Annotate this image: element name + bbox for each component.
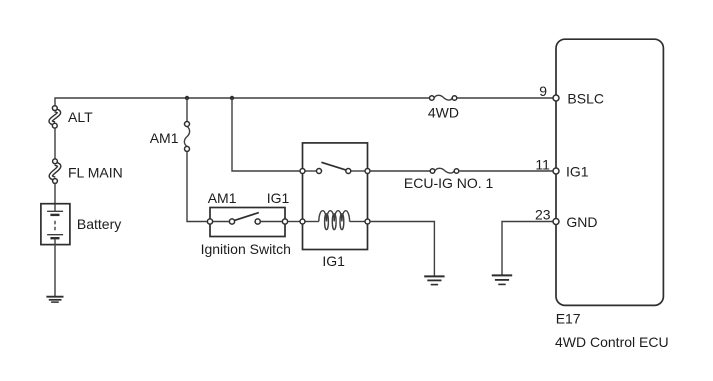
svg-text:9: 9 [539, 83, 547, 99]
pin 11 [553, 168, 559, 174]
wire: FL MAIN to battery [54, 183, 56, 211]
wire: battery B+ bus (left riser and top horizontal) [55, 98, 430, 106]
fusible link ALT [51, 106, 59, 128]
wire: bus to AM1 fuse [186, 98, 188, 122]
wire: battery negative to ground [54, 238, 56, 296]
wire: relay coil to ground [370, 222, 434, 276]
svg-text:IG1: IG1 [322, 253, 345, 269]
fuse AM1 [184, 122, 189, 152]
svg-text:AM1: AM1 [150, 130, 179, 146]
junction dot: relay branch [230, 96, 234, 100]
wire: ECU-IG fuse to pin 11 [459, 170, 553, 172]
wire: AM1 fuse to ignition switch [187, 151, 207, 221]
wire: pin 23 to ground [502, 222, 553, 275]
svg-text:IG1: IG1 [566, 164, 589, 180]
svg-text:ALT: ALT [68, 109, 93, 125]
svg-text:11: 11 [535, 156, 550, 172]
svg-text:BSLC: BSLC [567, 91, 604, 107]
fusible link FL MAIN [51, 159, 59, 184]
ground (relay coil) [424, 276, 444, 284]
svg-text:4WD Control ECU: 4WD Control ECU [555, 334, 669, 350]
pin 9 [553, 95, 559, 101]
ignition switch [207, 208, 287, 237]
fuse 4WD [430, 95, 457, 100]
junction dot: AM1 branch [185, 96, 189, 100]
ground (battery) [46, 297, 63, 302]
fuse ECU-IG NO. 1 [430, 168, 459, 173]
svg-text:IG1: IG1 [267, 190, 290, 206]
wire: bus to relay switch [232, 98, 300, 171]
svg-text:AM1: AM1 [208, 190, 237, 206]
wire: ALT to FL MAIN [54, 128, 56, 159]
svg-text:FL MAIN: FL MAIN [68, 165, 123, 181]
svg-text:ECU-IG NO. 1: ECU-IG NO. 1 [404, 175, 494, 191]
relay IG1 [300, 143, 370, 250]
ECU box E17 [556, 39, 663, 305]
pin 23 [553, 219, 559, 225]
wire: 4WD fuse to pin 9 [457, 97, 553, 99]
svg-text:4WD: 4WD [428, 105, 459, 121]
svg-text:E17: E17 [556, 311, 581, 327]
svg-text:Battery: Battery [77, 216, 121, 232]
wire: relay switch to ECU-IG fuse [370, 170, 430, 172]
svg-text:23: 23 [535, 206, 551, 222]
svg-text:GND: GND [566, 214, 597, 230]
battery [41, 204, 70, 245]
svg-text:Ignition Switch: Ignition Switch [201, 241, 291, 257]
wire: ignition switch to relay coil [288, 221, 300, 223]
ground (pin 23) [492, 275, 512, 284]
relay coil [305, 221, 319, 223]
